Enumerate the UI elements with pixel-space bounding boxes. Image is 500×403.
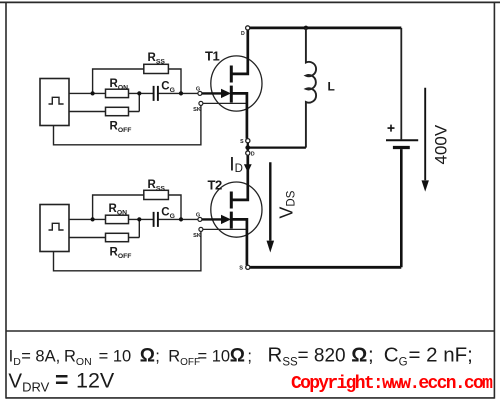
frame left border: [5, 2, 7, 399]
resistor RSS (upper): [144, 64, 169, 73]
junction dot mid node: [245, 145, 250, 150]
svg-text:T2: T2: [208, 177, 222, 192]
resistor ROFF (lower): [106, 233, 129, 241]
terminal SK (upper): [199, 101, 203, 105]
wire bottom rail: [249, 266, 401, 269]
wire SK to source (lower): [203, 228, 247, 230]
pulse source V1 box: [40, 79, 69, 126]
frame divider line: [6, 330, 494, 332]
wire RSS branch left (upper): [93, 69, 144, 93]
pulse source V2 waveform glyph: [49, 223, 64, 230]
junction dot node B (lower): [137, 217, 141, 221]
arrow VDS: [267, 162, 275, 252]
junction dot node C (lower): [179, 217, 183, 221]
wire ROFF row (lower): [69, 219, 139, 237]
junction dot node B (upper): [137, 91, 141, 95]
resistor RON (upper): [106, 89, 129, 97]
transistor T1 channel bar lower: [230, 86, 233, 103]
wire battery negative branch: [400, 149, 403, 267]
terminal D of T2: [246, 151, 250, 155]
wire RSS branch right (upper): [168, 69, 181, 93]
wire SK to source (upper): [203, 102, 247, 104]
terminal S of T1: [246, 139, 250, 143]
wire battery positive branch: [400, 28, 402, 139]
transistor T2 channel bar upper: [230, 192, 233, 209]
battery 400V top plate: [386, 139, 418, 141]
inductor L: [306, 28, 316, 148]
wire return loop (upper): [54, 105, 201, 144]
terminal G (upper): [198, 91, 202, 95]
wire RSS branch right (lower): [168, 195, 181, 219]
transistor T1 gate arrow: [202, 89, 231, 98]
transistor T1 source lead: [232, 93, 247, 138]
svg-text:G: G: [196, 212, 200, 218]
battery 400V bottom plate: [393, 146, 410, 149]
pulse source V1 waveform glyph: [49, 97, 64, 104]
wire S to node: [247, 143, 249, 151]
svg-text:S: S: [239, 265, 243, 271]
svg-text:SK: SK: [193, 233, 201, 239]
wire return loop (lower): [54, 231, 201, 270]
transistor T2 gate arrow: [202, 215, 231, 224]
junction dot node A (lower): [91, 217, 95, 221]
junction dot node C (upper): [179, 91, 183, 95]
capacitor CG (lower): [154, 212, 158, 227]
svg-text:400V: 400V: [431, 124, 450, 164]
transistor T2 drain lead: [232, 155, 247, 200]
wire gate row (lower): [69, 218, 198, 220]
resistor RSS (lower): [144, 190, 169, 199]
junction dot top rail / inductor: [304, 26, 309, 31]
svg-text:G: G: [196, 86, 200, 92]
terminal D (top rail): [246, 26, 250, 30]
wire RSS branch left (lower): [93, 195, 144, 219]
wire ROFF row (upper): [69, 93, 139, 111]
svg-text:T1: T1: [205, 49, 219, 64]
wire top rail: [250, 26, 401, 29]
transistor T1 channel bar upper: [230, 66, 233, 83]
transistor T2 source lead: [232, 219, 247, 265]
current arrow ID head: [244, 164, 252, 172]
battery plus sign: [388, 125, 395, 132]
terminal S of T2: [246, 265, 250, 269]
transistor T1 body circle: [211, 56, 262, 111]
terminal SK (lower): [199, 227, 203, 231]
transistor T2 body circle: [211, 182, 262, 237]
resistor ROFF (upper): [106, 107, 129, 115]
resistor RON (lower): [106, 215, 129, 223]
transistor T2 channel bar lower: [230, 212, 233, 229]
wire gate row (upper): [69, 92, 198, 94]
svg-text:D: D: [241, 31, 245, 37]
svg-text:S: S: [240, 139, 244, 145]
svg-text:SK: SK: [193, 107, 201, 113]
frame right border: [493, 2, 495, 399]
pulse source V2 box: [40, 205, 69, 252]
svg-text:D: D: [251, 152, 255, 158]
frame top border: [0, 1, 500, 3]
svg-text:L: L: [328, 80, 335, 94]
junction dot node A (upper): [91, 91, 95, 95]
capacitor CG (upper): [154, 86, 158, 101]
svg-text:Copyright:www.eccn.com: Copyright:www.eccn.com: [291, 374, 493, 394]
transistor T1 drain lead: [232, 30, 247, 74]
frame bottom border: [6, 397, 494, 399]
wire inductor bottom to source node: [249, 146, 306, 148]
terminal G (lower): [198, 217, 202, 221]
arrow 400V: [422, 88, 429, 192]
